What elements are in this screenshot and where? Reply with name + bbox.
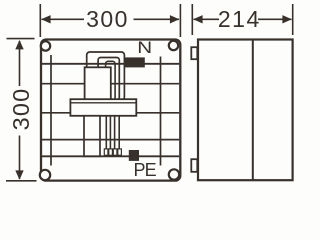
clamp 3 xyxy=(113,149,117,155)
svg-text:300: 300 xyxy=(86,6,129,32)
dimension 300 vertical: bottom extension line xyxy=(6,180,37,182)
wire 4 xyxy=(118,116,120,153)
dimension 300 vertical: dimension line bottom segment xyxy=(19,136,21,180)
terminal block plate xyxy=(70,99,136,116)
hinge tab bottom xyxy=(191,159,197,172)
dimension 300 vertical: top extension line xyxy=(7,38,35,40)
terminal block lower body xyxy=(84,116,100,157)
dimension 300 horizontal: dimension line left segment xyxy=(42,18,85,20)
wire 3 xyxy=(114,116,116,153)
cable gland arch xyxy=(106,61,116,100)
busbar rail 2 xyxy=(42,83,179,85)
dimension 300 horizontal: left extension line xyxy=(39,4,41,37)
hinge tab top xyxy=(191,47,197,59)
enclosure front view: outer case xyxy=(41,40,180,181)
corner screw top-right xyxy=(169,41,178,50)
terminal block upper body xyxy=(85,67,111,102)
busbar rail 3 xyxy=(42,112,179,114)
side view lid parting line xyxy=(252,40,254,181)
svg-text:N: N xyxy=(137,38,152,57)
clamp 2 xyxy=(109,149,113,155)
mounting rail right vertical xyxy=(160,57,162,166)
wire 1 xyxy=(105,116,107,153)
clamp 4 xyxy=(118,149,122,155)
cable gland hood inner xyxy=(98,58,119,101)
wire 2 xyxy=(109,116,111,153)
enclosure side view: body xyxy=(198,40,293,181)
dimension 214: dimension line right segment xyxy=(258,18,292,20)
dimension 214: dimension line left segment xyxy=(194,18,220,20)
terminal PE block xyxy=(129,150,139,161)
dimension 214: right arrowhead xyxy=(282,15,291,23)
svg-text:PE: PE xyxy=(134,160,157,180)
dimension 300 horizontal: left arrowhead xyxy=(41,15,50,23)
dimension 214: left arrowhead xyxy=(193,15,202,23)
dimension 300 horizontal: dimension line right segment xyxy=(134,18,180,20)
dimension 214: right extension line xyxy=(292,4,294,35)
busbar rail 5 xyxy=(42,155,179,157)
dimension 300 vertical: dimension line top segment xyxy=(19,41,21,86)
corner screw top-left xyxy=(41,41,50,50)
dimension 300 vertical: up arrowhead xyxy=(15,40,23,49)
corner screw bottom-right xyxy=(169,169,179,179)
dimension 300 horizontal: right extension line xyxy=(179,4,181,37)
mounting rail left vertical xyxy=(50,55,52,166)
dimension 300 horizontal: right arrowhead xyxy=(170,15,179,23)
busbar rail 4 xyxy=(42,139,179,141)
clamp 1 xyxy=(104,149,108,155)
svg-text:214: 214 xyxy=(218,6,261,32)
terminal block plate inner edge xyxy=(70,102,136,104)
dimension 214: left extension line xyxy=(191,4,193,35)
dimension 300 vertical: down arrowhead xyxy=(15,170,23,179)
terminal N block xyxy=(124,57,145,67)
cable gland hood outer xyxy=(87,52,125,100)
busbar rail 1 xyxy=(42,63,179,65)
corner screw bottom-left xyxy=(40,170,50,180)
svg-text:300: 300 xyxy=(8,88,34,131)
